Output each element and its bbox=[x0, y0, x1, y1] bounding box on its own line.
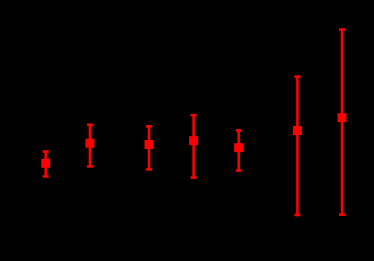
errorbar point 5 bbox=[234, 129, 243, 172]
errorbar point 4 bbox=[189, 114, 198, 179]
errorbar point 3 bbox=[145, 125, 154, 170]
errorbar point 2 bbox=[85, 123, 94, 167]
errorbar point 6 bbox=[293, 75, 302, 216]
errorbar point 7 bbox=[338, 28, 347, 216]
errorbar point 1 bbox=[41, 150, 50, 177]
